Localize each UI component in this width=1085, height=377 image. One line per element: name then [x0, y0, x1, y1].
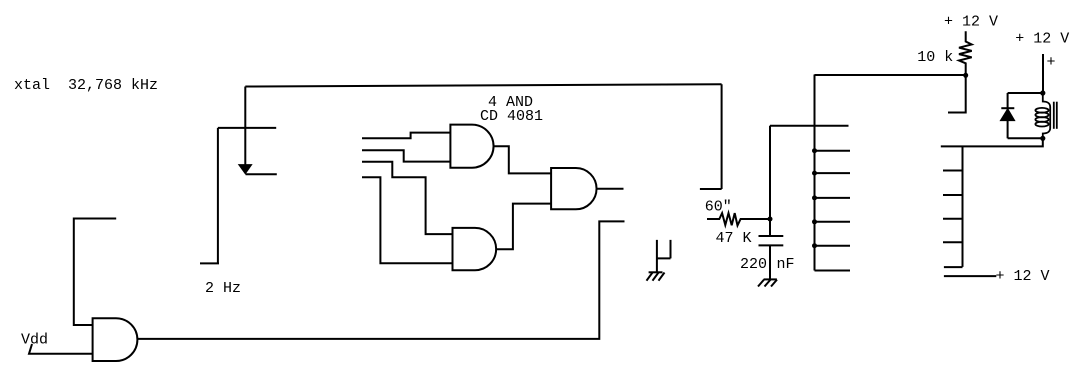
AND gate U3 [551, 168, 596, 209]
AND gate U1 [450, 125, 493, 168]
wire 2Hz bottom tick [200, 262, 219, 264]
wire relay left vertical [1007, 93, 1009, 138]
wire U2 output to U3 bottom input [496, 204, 551, 250]
wire U4 output long bottom run [137, 221, 624, 339]
node dot tick 1 [812, 148, 850, 153]
svg-text:xtal: xtal [14, 77, 50, 94]
wire left bus bottom tick [815, 270, 851, 272]
wire left bus top to 10k junction [815, 74, 966, 76]
diode D1 flyback [1001, 108, 1014, 120]
wire left bus vertical [814, 75, 816, 271]
svg-text:10 k: 10 k [917, 49, 953, 66]
svg-text:47 K: 47 K [716, 230, 752, 247]
wire right bus tick 3 [943, 218, 963, 220]
svg-text:+ 12 V: + 12 V [944, 14, 998, 31]
node dot tick 2 [812, 171, 850, 176]
wire U3 output stub [597, 188, 624, 190]
wire U1 output to U3 top input [494, 146, 552, 173]
wire relay bottom to right bus [941, 138, 1043, 146]
wire divider arrow bottom tick [246, 173, 277, 175]
wire relay feed vertical [1042, 54, 1044, 93]
resistor R 10k [959, 31, 972, 75]
wire input stub 3 to U2 top [362, 162, 453, 234]
wire right bus tick 1 [943, 170, 963, 172]
wire 2Hz vertical [217, 128, 219, 264]
wire divider arrow vertical [244, 87, 246, 166]
node dot tick 4 [812, 219, 850, 224]
wire relay bottom horizontal [1008, 137, 1043, 139]
svg-text:+: + [1047, 54, 1056, 71]
node dot tick 5 [812, 243, 850, 248]
wire input stub 1 to U1 top [362, 133, 450, 139]
wire 10k junction down stub [948, 75, 966, 112]
node unused-input tie U [657, 240, 671, 272]
svg-text:nF: nF [777, 256, 795, 273]
wire input stub 4 to U2 bottom [362, 177, 453, 263]
relay core lines [1054, 102, 1057, 129]
wire crossing horizontal over left bus [770, 125, 849, 127]
svg-text:220: 220 [740, 256, 767, 273]
wire top from divider arrow to right down-leg [245, 84, 721, 86]
wire stub to U4 top input [74, 219, 116, 326]
wire top down-leg right [721, 84, 723, 189]
node junction R-C [768, 217, 773, 222]
node junction 10k [963, 73, 968, 78]
svg-text:CD 4081: CD 4081 [480, 108, 543, 125]
svg-text:+ 12 V: + 12 V [1015, 31, 1069, 48]
node relay bottom [1040, 136, 1045, 141]
wire divider crossing horizontal [218, 127, 276, 129]
node relay top [1040, 90, 1045, 95]
AND gate U4 [93, 318, 138, 361]
divider arrowhead [239, 165, 252, 174]
wire right bus vertical [962, 146, 964, 267]
svg-text:2 Hz: 2 Hz [205, 280, 241, 297]
wire right bus bottom tick [944, 266, 963, 268]
wire bottom 12V feed [944, 275, 996, 277]
svg-text:Vdd: Vdd [21, 332, 48, 349]
wire input stub 2 to U1 bottom [362, 150, 450, 161]
relay coil K1 [1035, 93, 1050, 138]
AND gate U2 [453, 228, 497, 270]
wire junction up to crossing line [769, 126, 771, 219]
resistor R 47K [707, 213, 770, 225]
wire top down-leg tick [700, 188, 722, 190]
ground at tie point [647, 272, 665, 280]
wire relay top horizontal [1008, 92, 1043, 94]
wire Vdd lead to U4 bottom input [29, 344, 93, 354]
capacitor C 220nF [759, 219, 784, 279]
node dot tick 3 [812, 195, 850, 200]
wire right bus tick 4 [943, 241, 963, 243]
svg-text:+ 12 V: + 12 V [996, 268, 1050, 285]
ground below capacitor [758, 279, 777, 286]
wire right bus tick 2 [943, 194, 963, 196]
svg-text:32,768 kHz: 32,768 kHz [68, 77, 158, 94]
